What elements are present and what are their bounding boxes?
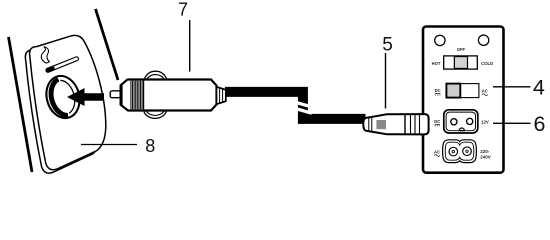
right dashboard stroke <box>96 9 119 80</box>
svg-text:4: 4 <box>533 76 545 100</box>
plug tip nub <box>110 91 120 98</box>
panel screw hole right <box>478 35 488 45</box>
plug clip ring top outer <box>144 71 166 81</box>
connector gray pad <box>376 120 386 129</box>
svg-text:DC: DC <box>435 88 441 93</box>
plug strain relief <box>217 87 226 104</box>
svg-text:COLD: COLD <box>481 61 493 66</box>
lighter socket ring <box>42 72 84 122</box>
cigarette icon smoke <box>41 47 49 63</box>
connector right ribs <box>410 115 412 135</box>
cable break gap 1 <box>292 101 314 107</box>
DC/AC switch <box>446 84 479 98</box>
appliance panel frame <box>423 27 504 173</box>
plug ribs <box>131 81 142 110</box>
plug clip ring bottom inner <box>145 109 165 115</box>
AC figure-8 socket outer <box>443 140 477 163</box>
12V DC socket <box>444 110 478 133</box>
svg-text:5: 5 <box>382 35 393 56</box>
cigarette icon tip <box>48 69 52 71</box>
svg-text:HOT: HOT <box>432 61 441 66</box>
connector left ribs <box>368 117 370 133</box>
connector (item 5) body <box>363 114 428 134</box>
svg-text:AC: AC <box>482 88 488 93</box>
plug body (item 7) <box>121 80 217 111</box>
svg-text:12V: 12V <box>481 120 489 125</box>
svg-text:7: 7 <box>178 0 188 20</box>
HOT/COLD slider <box>444 56 478 69</box>
plug clip ring top inner <box>146 75 165 81</box>
svg-text:240V: 240V <box>480 154 491 159</box>
svg-text:AC: AC <box>434 149 440 154</box>
svg-text:8: 8 <box>145 136 155 156</box>
plug ribs boundary <box>143 81 145 110</box>
socket plate side slab <box>25 39 101 173</box>
label 6 leader <box>493 122 531 124</box>
label 8 leader <box>81 144 137 146</box>
label 4 leader <box>493 86 531 88</box>
cable break gap 2 <box>294 108 312 113</box>
left dashboard stroke <box>9 37 33 172</box>
power cable with step <box>225 92 366 119</box>
panel screw hole left <box>435 35 445 45</box>
label 5 leader <box>385 53 387 109</box>
svg-text:220-: 220- <box>480 149 490 154</box>
AC figure-8 socket inner <box>445 142 474 160</box>
insertion arrow <box>67 88 104 106</box>
plug front thick edge <box>120 85 123 105</box>
svg-text:DC: DC <box>434 119 440 124</box>
socket plate face (item 8 plate) <box>30 35 106 169</box>
cigarette icon body <box>48 59 77 70</box>
plug clip ring bottom outer <box>144 109 167 118</box>
svg-text:6: 6 <box>534 112 546 136</box>
connector divider <box>404 114 406 134</box>
label 7 leader <box>189 20 191 72</box>
svg-text:OFF: OFF <box>457 47 466 52</box>
